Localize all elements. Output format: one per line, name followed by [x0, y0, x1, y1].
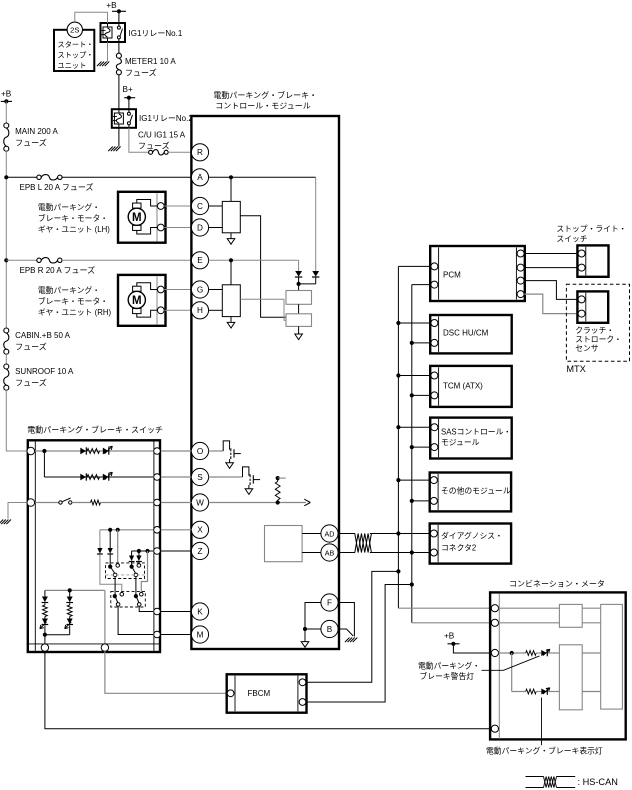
wire DSC to rail A [396, 321, 400, 325]
pin E [191, 252, 208, 269]
svg-text:フューズ: フューズ [138, 141, 170, 151]
svg-text:G: G [197, 285, 203, 294]
dashed box MTX [566, 284, 629, 361]
contact arm upper-left [111, 568, 115, 574]
lamp diode row O [103, 448, 109, 455]
wire LED rail to bottom connector 2 [104, 590, 106, 643]
svg-text:フューズ: フューズ [125, 68, 157, 78]
svg-text:ブレーキ警告灯: ブレーキ警告灯 [420, 671, 475, 681]
switch stop light switch box [577, 245, 608, 276]
wire +B to meter connector 3 [453, 644, 491, 653]
wire upper arm to lower contact right [135, 577, 137, 594]
diode row S [80, 474, 86, 481]
module TCM (ATX) box [430, 366, 512, 407]
wire EPB R fuse to pin E [62, 259, 192, 261]
svg-text:コネクタ2: コネクタ2 [441, 544, 476, 553]
wire relay block A to B [298, 304, 300, 314]
LED branch 1 diode [44, 590, 46, 596]
svg-text:ユニット: ユニット [58, 61, 87, 70]
connector PCM right 3 [517, 277, 524, 284]
strand Z 2 with diode [138, 551, 140, 556]
svg-text:ストローク・: ストローク・ [575, 335, 622, 344]
wire pin G to RH driver [209, 289, 223, 291]
wire METER1 fuse to relay No.2 coil [118, 75, 120, 110]
wire pin D to LH driver [209, 227, 223, 229]
svg-text:R: R [197, 148, 203, 157]
strand Z 1 with diode [131, 551, 133, 556]
pin C [191, 197, 208, 214]
wire +B rail upper [5, 101, 7, 123]
internal ground arrow (relay block) [295, 334, 303, 340]
contact throw upper (X2) [116, 564, 120, 568]
node LED branch 1 bottom [44, 625, 46, 634]
motor unit EPB motor gear unit (LH) box [118, 192, 166, 243]
inner connector strip right (EPB switch) [153, 442, 155, 651]
diode D1 (E feed) [295, 271, 302, 277]
wire SAS to rail B [410, 445, 414, 449]
wire warning lamp row [499, 652, 526, 654]
legend twisted pair symbol [526, 776, 544, 778]
pin B [321, 620, 338, 637]
wire Z to pin Z [160, 550, 191, 552]
node LED branch 2 tap [68, 588, 72, 592]
ground (F/B pins) [345, 638, 350, 643]
svg-text:AB: AB [325, 548, 335, 557]
relay IG1 relay No.2 [112, 109, 136, 128]
wire lamp driver to MCU 1 [582, 652, 601, 654]
strand X 1 with diode [109, 530, 111, 548]
node A branch junction [229, 175, 233, 179]
contact common lower-left [113, 594, 117, 598]
lamp arrow row S [105, 472, 113, 480]
pin K [191, 603, 208, 620]
wire M to pin M [161, 634, 192, 636]
wire row S vertical from O junction [43, 451, 45, 477]
wire X to pin X [161, 529, 192, 531]
connector row Z right [154, 548, 161, 555]
pin AD [321, 525, 338, 542]
pin D [191, 219, 208, 236]
connector row O right [154, 448, 161, 455]
meter combination meter box [490, 592, 626, 739]
wire S to pin S [161, 476, 192, 478]
wire lamp branch down [511, 653, 513, 692]
svg-text:: HS-CAN: : HS-CAN [578, 777, 618, 787]
svg-text:電動パーキング・ブレーキ・: 電動パーキング・ブレーキ・ [213, 90, 317, 100]
wire row W right segment [101, 502, 154, 504]
svg-text:フューズ: フューズ [15, 138, 47, 148]
connector row X right [154, 527, 161, 534]
svg-text:スイッチ: スイッチ [556, 235, 587, 244]
wire +B rail to EPB switch [6, 390, 27, 451]
wire +B to IG1 relay No.1 switch [118, 11, 120, 23]
wire B+ to relay No.2 switch [128, 98, 130, 110]
wire LH driver output to relay block B [240, 216, 286, 317]
node rail A / AD [396, 531, 400, 535]
wire pin W internal with arrow [209, 502, 306, 504]
wire CAN rail A [397, 266, 399, 608]
inner connector strip bottom (EPB switch) [29, 643, 159, 645]
wire lower-right arm to row K [139, 606, 153, 611]
wire upper arm to lower contact left [114, 577, 116, 594]
svg-text:M: M [132, 295, 142, 307]
node F/B internal junction [303, 627, 307, 631]
leader line EPB indicator light [541, 698, 543, 746]
contact arm lower-right [137, 597, 139, 603]
wire K to pin K [161, 611, 192, 613]
wire 2S to relay No.1 coil [75, 12, 108, 23]
svg-text:C/U IG1 15 A: C/U IG1 15 A [138, 131, 186, 140]
wire meter CAN H internal [499, 607, 560, 609]
svg-text:フューズ: フューズ [15, 341, 47, 351]
node lamp branch [510, 651, 514, 655]
wire PCM to rail A [398, 265, 430, 267]
wire LED branches bottom link [69, 625, 71, 634]
svg-text:FBCM: FBCM [248, 689, 271, 698]
svg-text:AD: AD [325, 529, 335, 538]
transistor driver at pin O [209, 450, 224, 452]
svg-text:DSC HU/CM: DSC HU/CM [443, 328, 489, 337]
pin H [191, 302, 208, 319]
module SAS control module box [430, 418, 512, 459]
connector switch bottom 1 [41, 644, 48, 651]
wire rail A into combination meter [398, 607, 491, 609]
LED branch 2 lamp arrow [65, 622, 72, 629]
svg-text:F: F [327, 598, 332, 607]
strand X bypass (left) with diode [99, 530, 101, 548]
wire twisted pair to diagnosis connector (CAN L) [370, 552, 430, 554]
pin S [191, 468, 208, 485]
wire meter CAN L internal [499, 622, 601, 624]
svg-text:M: M [132, 212, 142, 224]
connector FBCM right 1 [299, 679, 306, 686]
connector row S right [154, 474, 161, 481]
LED branch 1 lamp arrow [40, 622, 47, 629]
dashed housing midline upper [106, 574, 145, 576]
dashed switch housing lower [111, 591, 146, 607]
wire A junction down to LH driver [230, 177, 232, 201]
wire PCM to stop light switch 1 [524, 253, 577, 255]
svg-text:IG1リレーNo.2: IG1リレーNo.2 [139, 114, 193, 123]
diode row O [80, 448, 86, 455]
connector meter 4 [491, 725, 498, 732]
wire lower-left arm to row M [118, 606, 153, 634]
ground (relay No.1 coil) [97, 62, 102, 67]
inner connector strip right (PCM) [515, 247, 517, 299]
svg-text:E: E [197, 256, 203, 265]
connector PCM right 1 [517, 250, 524, 257]
pin W [191, 494, 208, 511]
wire twisted pair to diagnosis connector (CAN H) [370, 533, 430, 535]
connector meter 2 [491, 619, 498, 626]
LED branch 1 lamp diode [44, 617, 46, 619]
svg-text:MTX: MTX [566, 364, 585, 374]
node row X strand 2 [116, 528, 120, 532]
svg-text:電動パーキング・: 電動パーキング・ [418, 660, 480, 670]
svg-text:その他のモジュール: その他のモジュール [441, 485, 511, 495]
resistor warning lamp [526, 651, 537, 656]
wire relay No.1 coil to ground [107, 42, 109, 62]
wire LED bottom to connector 1 [44, 635, 46, 644]
svg-text:電動パーキング・ブレーキ表示灯: 電動パーキング・ブレーキ表示灯 [486, 746, 603, 756]
svg-text:W: W [196, 498, 204, 507]
switch contact row W [59, 501, 62, 504]
connector row W left [27, 499, 35, 507]
relay block B (internal) [286, 314, 312, 327]
LED branch 2 resistor [69, 603, 71, 605]
wire FBCM to rail B [306, 585, 412, 703]
svg-text:ギヤ・ユニット (LH): ギヤ・ユニット (LH) [38, 225, 110, 234]
svg-text:コンビネーション・メータ: コンビネーション・メータ [509, 579, 605, 588]
wire row X [100, 529, 153, 531]
wire C/U IG1 fuse to pin R [168, 151, 191, 153]
svg-text:C: C [197, 202, 203, 211]
wire row S (release) [44, 476, 153, 478]
wire relay No.2 switch to C/U IG1 fuse [129, 128, 149, 153]
svg-text:ダイアグノシス・: ダイアグノシス・ [441, 531, 503, 541]
fuse METER1 10 A [116, 53, 121, 58]
svg-text:電動パーキング・ブレーキ・スイッチ: 電動パーキング・ブレーキ・スイッチ [27, 425, 163, 435]
svg-text:電動パーキング・: 電動パーキング・ [38, 202, 100, 212]
wire CAN transceiver to pin AB [302, 552, 321, 554]
svg-text:METER1 10 A: METER1 10 A [125, 57, 176, 66]
wire tap to EPB R fuse [6, 259, 37, 261]
wire F/B node to internal ground [304, 629, 306, 642]
node E branch junction [229, 258, 233, 262]
pin F [321, 594, 338, 611]
svg-text:スタート・: スタート・ [58, 40, 94, 49]
fuse C/U IG1 15 A [149, 150, 153, 154]
diode D2 (A feed) [312, 271, 319, 277]
svg-text:SASコントロール・: SASコントロール・ [441, 427, 511, 436]
wire rail B into combination meter [412, 622, 492, 624]
svg-text:B+: B+ [123, 85, 133, 94]
pin O [191, 442, 208, 459]
module DSC HU/CM box [430, 315, 512, 353]
svg-text:ストップ・: ストップ・ [58, 51, 94, 60]
wire PCM to stop light switch 2 [524, 267, 577, 269]
wire pin E internal [209, 259, 299, 261]
contact throw upper (Z2) [137, 564, 141, 568]
svg-text:コントロール・モジュール: コントロール・モジュール [215, 102, 310, 111]
LED branch 2 lamp diode [69, 617, 71, 619]
wire lamp driver to MCU 2 [582, 691, 601, 693]
relay block A (internal) [298, 284, 300, 291]
wire relay No.1 to METER1 fuse [118, 42, 120, 53]
pin A [191, 169, 208, 186]
wire pin AD to twisted pair [338, 533, 355, 535]
node rail A / FBCM [396, 569, 400, 573]
wire O to pin O [161, 450, 192, 452]
inner connector strip (meter) [498, 594, 500, 739]
internal ground arrow (F/B) [301, 642, 309, 648]
svg-text:D: D [197, 223, 203, 232]
wire E junction down to RH driver [230, 260, 232, 285]
ground (relay No.2 coil) [108, 147, 113, 152]
leader line EPB warning light [482, 656, 540, 670]
block meter lamp driver [559, 645, 582, 710]
svg-text:センサ: センサ [575, 344, 599, 353]
svg-text:PCM: PCM [443, 270, 461, 279]
wire FBCM to rail A [306, 571, 398, 682]
wire TCM to rail B [410, 393, 414, 397]
sensor clutch stroke sensor box [577, 291, 608, 322]
relay IG1 relay No.1 [101, 23, 126, 42]
connector row W right [154, 499, 161, 506]
svg-text:O: O [197, 447, 203, 456]
resistor row S [87, 475, 100, 480]
inner strips FBCM [234, 676, 236, 712]
svg-text:TCM (ATX): TCM (ATX) [443, 381, 483, 390]
svg-text:モジュール: モジュール [441, 438, 480, 447]
wire DSC to rail B [410, 341, 414, 345]
wire indicator lamp row [512, 691, 526, 693]
module other modules box [430, 473, 511, 512]
wire motor RH pin1 to pin G [164, 289, 191, 291]
svg-text:Z: Z [197, 547, 202, 556]
ground (switch W) [0, 520, 3, 525]
svg-text:+B: +B [1, 89, 12, 98]
svg-text:電動パーキング・: 電動パーキング・ [38, 285, 100, 295]
contact circle lower-right of upper path [120, 592, 124, 596]
wire pin H to RH driver [209, 309, 223, 311]
LED branch 1 resistor [44, 603, 46, 605]
svg-text:M: M [197, 630, 204, 639]
module PCM box [430, 246, 525, 301]
svg-text:CABIN.+B 50 A: CABIN.+B 50 A [15, 331, 71, 340]
svg-text:MAIN 200 A: MAIN 200 A [15, 127, 58, 136]
wire indicator lamp to driver block [548, 691, 559, 693]
svg-text:A: A [197, 173, 203, 182]
wire RH driver to internal ground [230, 317, 232, 323]
module EPB control module box [191, 116, 339, 649]
module diagnosis connector 2 box [430, 524, 511, 564]
wire tap to EPB L fuse [6, 176, 37, 178]
wire row O (apply) [35, 450, 153, 452]
arrowhead W internal [304, 499, 310, 502]
svg-text:2S: 2S [70, 26, 79, 35]
svg-text:B: B [327, 625, 333, 634]
internal ground arrow (LH driver) [227, 239, 235, 245]
svg-text:K: K [197, 607, 203, 616]
wire LED top rail [45, 589, 105, 591]
connector row K right [154, 608, 161, 615]
node row Z strand 2 [145, 549, 149, 553]
wire switch bottom 1 to combination meter [45, 651, 491, 728]
connector row M right [154, 631, 161, 638]
pin R [191, 144, 208, 161]
node rail B / AB [410, 550, 414, 554]
wire pin B external to chassis ground [338, 629, 353, 636]
dashed switch housing upper [106, 563, 145, 579]
wire RH driver output to relay block B [240, 299, 286, 320]
wire W external to ground [8, 503, 27, 519]
block meter CAN interface [559, 604, 582, 627]
svg-text:クラッチ・: クラッチ・ [575, 326, 614, 335]
pin AB [321, 544, 338, 561]
module FBCM box [227, 674, 307, 712]
wire warning lamp to driver block [548, 652, 559, 654]
wire switch bottom 2 to FBCM [105, 651, 227, 693]
wire pin B internal [305, 628, 321, 630]
fuse SUNROOF 10 A [4, 364, 9, 369]
lamp diode warning lamp [541, 650, 547, 656]
connector PCM right 2 [517, 264, 524, 271]
wire pin F internal to pin B node [305, 603, 321, 630]
contact arm lower-left [115, 597, 117, 603]
fuse EPB L 20 A [37, 175, 41, 179]
svg-text:ストップ・ライト・: ストップ・ライト・ [556, 225, 626, 234]
pin G [191, 281, 208, 298]
connector PCM right 4 [517, 291, 524, 298]
wire PCM to clutch stroke sensor 1 [524, 281, 577, 300]
strand Z 3 (gray right) [141, 551, 147, 592]
fuse CABIN.+B 50 A [4, 328, 9, 333]
contact arm upper-right [132, 568, 135, 574]
box EPB switch [28, 440, 160, 652]
block meter MCU (tall) [601, 604, 623, 709]
fuse EPB R 20 A [37, 258, 41, 262]
wire motor LH pin2 to pin D [164, 227, 191, 229]
transistor driver at pin S [209, 476, 228, 478]
node EPB L tap [4, 175, 8, 179]
wire PCM to clutch stroke sensor 2 [524, 294, 577, 314]
wire motor LH pin1 to pin C [164, 205, 191, 207]
resistor pull-up at W [276, 476, 280, 480]
node W-resistor junction [276, 500, 280, 504]
wire other modules to rail A [396, 478, 400, 482]
svg-text:フューズ: フューズ [15, 377, 47, 387]
lamp arrow indicator lamp [543, 688, 550, 694]
wire relay No.2 coil to ground [118, 128, 120, 147]
LED branch 2 diode [69, 590, 71, 596]
wire pin A internal to diode feed [209, 176, 316, 178]
inner connector strip left (EPB switch) [34, 442, 36, 651]
contact circle lower (Z3) [140, 592, 144, 596]
wire row Z [132, 550, 153, 552]
node EPB R tap [4, 258, 8, 262]
svg-text:ブレーキ・モータ・: ブレーキ・モータ・ [38, 213, 108, 223]
wire row W left segment [35, 502, 59, 504]
connector meter 3 [491, 649, 498, 656]
wire CAN interface to meter MCU [582, 607, 601, 609]
wire TCM to rail A [396, 373, 400, 377]
connector row O left [27, 447, 35, 455]
svg-text:+B: +B [444, 632, 455, 641]
svg-text:X: X [197, 526, 203, 535]
twisted pair symbol (HS-CAN) [355, 534, 372, 553]
wire EPB L fuse to pin A [62, 176, 192, 178]
svg-text:H: H [197, 306, 203, 315]
wire pin AB to twisted pair [338, 552, 355, 554]
wire CAN rail B [411, 285, 413, 623]
wire LH driver to internal ground [230, 233, 232, 239]
wire PCM to rail B [412, 284, 430, 286]
driver block LH (C/D) [222, 201, 240, 232]
wire pin F external to chassis ground [338, 603, 354, 637]
svg-text:EPB R 20 A フューズ: EPB R 20 A フューズ [20, 265, 96, 275]
strand X 2 [117, 530, 119, 564]
internal ground arrow (RH driver) [227, 322, 235, 328]
svg-text:+B: +B [106, 1, 117, 10]
node row O junction [42, 449, 46, 453]
wire row W middle [72, 502, 91, 504]
wire CAN transceiver to pin AD [302, 533, 321, 535]
wire +B rail (between CABIN and SUNROOF fuses) [5, 354, 7, 364]
block CAN transceiver (internal) [265, 526, 303, 562]
svg-text:IG1リレーNo.1: IG1リレーNo.1 [129, 29, 183, 38]
contact common upper-right [130, 565, 134, 569]
